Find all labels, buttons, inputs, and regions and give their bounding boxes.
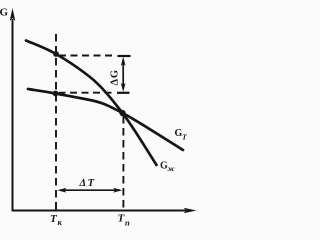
dot at curves crossing (T_p) [119, 110, 125, 116]
svg-text:п: п [125, 218, 130, 228]
svg-text:T: T [182, 133, 187, 142]
x-axis [12, 210, 187, 212]
svg-text:к: к [58, 217, 63, 227]
y-axis arrowhead [10, 8, 16, 21]
upper dimension bar [118, 55, 131, 57]
x-axis arrowhead [184, 208, 197, 214]
svg-text:ΔG: ΔG [110, 69, 121, 85]
upper horizontal dashed line (from upper dot) [59, 55, 115, 57]
delta-T dimension arrow (horizontal, double-headed) [60, 189, 120, 191]
dashed vertical line at T_p [122, 116, 124, 210]
dashed vertical line at T_k [55, 34, 57, 210]
svg-text:G: G [0, 7, 9, 19]
curve G_zh (steep, upper-left to lower-right) [26, 41, 157, 166]
svg-text:ж: ж [168, 164, 175, 173]
dot on G_t at T_k [53, 91, 59, 97]
svg-text:ΔT: ΔT [79, 178, 96, 189]
y-axis [12, 19, 14, 212]
curve G_t (shallow) [28, 89, 183, 150]
lower horizontal dashed line (from lower dot) [59, 92, 115, 94]
dot on G_zh at T_k [53, 51, 59, 57]
delta-G dimension arrow (vertical, double-headed) [122, 60, 124, 89]
lower dimension bar [117, 92, 130, 94]
